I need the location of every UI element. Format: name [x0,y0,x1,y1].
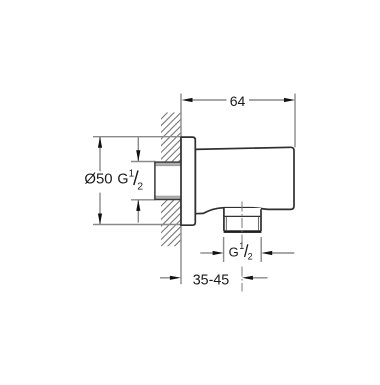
svg-text:G: G [117,171,128,187]
body of wall union [195,147,294,213]
extension line bottom of D50 [93,224,181,226]
arrow right of 64 [284,98,295,102]
svg-text:Ø50: Ø50 [84,171,112,187]
arrow left toward outlet right [261,251,272,255]
svg-text:2: 2 [137,181,143,193]
arrow down toward pipe top [136,150,140,161]
svg-text:35-45: 35-45 [193,273,230,289]
svg-text:1: 1 [129,169,135,180]
dimension line D50 [99,137,101,172]
arrow right toward wall face [170,276,181,280]
dimension line 35-45 (outside arrows) [160,277,170,279]
svg-text:G: G [229,244,239,259]
arrow left of 64 [182,98,193,102]
arrow bottom of D50 [98,214,102,225]
extension line right of 64 dimension [294,94,296,148]
flange (escutcheon) [181,137,195,225]
extension line top of D50 [93,136,181,138]
dimension line of wall thread G1/2 (outside arrows) [137,137,139,161]
extension lines of wall thread G1/2 [131,161,156,163]
centerline of outlet [241,202,243,244]
outlet pipe (downward) [224,208,262,233]
svg-text:64: 64 [230,94,246,110]
arrow right toward outlet left [213,251,224,255]
svg-text:1: 1 [239,241,244,251]
wall hatching [148,94,186,286]
arrow up toward pipe bottom [136,200,140,211]
extension lines of outlet G1/2 [223,237,225,262]
inlet pipe through wall [155,162,181,200]
arrow top of D50 [98,137,102,148]
arrow left toward centerline [242,276,253,280]
dimension line 64 [192,99,227,101]
wall face line / extension line for 64 and 35-45 [180,94,182,285]
svg-text:2: 2 [248,252,253,262]
dimension line of outlet G1/2 (outside arrows) [200,252,213,254]
